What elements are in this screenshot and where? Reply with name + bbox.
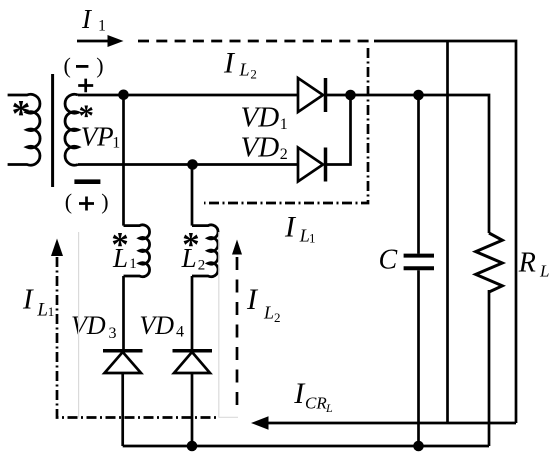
diode VD1 triangle: [298, 78, 323, 112]
svg-text:CR: CR: [305, 394, 327, 413]
svg-text:L: L: [181, 243, 197, 273]
inductor L2 coil: [192, 225, 218, 277]
svg-text:(: (: [64, 53, 71, 78]
wire: bottom return line with ICRL arrow: [266, 422, 516, 425]
wire: L1 to VD3: [122, 276, 125, 349]
diode VD3 triangle: [105, 352, 142, 373]
svg-text:L: L: [539, 262, 549, 281]
svg-text:L: L: [112, 243, 128, 273]
svg-text:VP: VP: [81, 121, 114, 151]
wire: C bottom lead: [417, 270, 420, 446]
capacitor C top plate: [404, 254, 434, 258]
current path IL2 dashed vertical with up arrow: [236, 257, 239, 410]
diode VD2 triangle: [298, 148, 323, 182]
svg-text:I: I: [81, 4, 93, 34]
current I1 arrow line: [77, 40, 109, 43]
wire: L2 to VD4: [191, 276, 194, 349]
wire: secondary top rail to VD1 anode: [78, 94, 298, 97]
svg-text:1: 1: [48, 304, 55, 319]
highlight box (light gray) around L/VD section: [78, 232, 80, 418]
svg-text:2: 2: [250, 67, 257, 82]
node: junction dot VD4 / bottom rail: [187, 441, 198, 452]
wire: VD2 cathode riser up to top node: [327, 95, 351, 165]
diode VD4 cathode bar: [173, 349, 213, 353]
transformer T1 primary winding: [8, 94, 40, 165]
diode VD2 cathode bar: [324, 148, 328, 182]
current path IL1 dash-dot left side with up arrow: [57, 257, 218, 418]
wire: L1 branch from top node down: [122, 95, 125, 226]
svg-text:I: I: [246, 283, 259, 316]
wire: VD1 cathode to output node: [327, 95, 489, 233]
transformer T1 secondary winding: [65, 94, 78, 165]
transformer T1 core: [51, 74, 54, 187]
svg-text:2: 2: [280, 146, 288, 163]
svg-text:VD: VD: [139, 311, 174, 340]
arrowhead IL2 (points up): [232, 240, 242, 255]
node: junction dot VD1/VD2 cathodes: [345, 90, 356, 101]
polarity bar (minus) bottom of secondary: [74, 179, 100, 184]
diode VD1 cathode bar: [324, 78, 328, 112]
label + top: [78, 79, 93, 93]
svg-text:L: L: [239, 60, 250, 80]
arrowhead IL1 (points up): [51, 239, 63, 257]
svg-text:1: 1: [280, 116, 288, 133]
diode VD3 cathode bar: [103, 349, 143, 353]
svg-text:I: I: [22, 284, 34, 316]
svg-text:4: 4: [176, 323, 184, 340]
wire: top-right rail solid: [374, 41, 516, 423]
svg-text:2: 2: [198, 257, 206, 273]
diode VD4 triangle: [174, 352, 210, 373]
wire: vertical link top rail to bottom return: [446, 41, 449, 423]
wire: L2 branch from bottom-rail node down: [191, 165, 194, 226]
svg-text:2: 2: [274, 310, 281, 325]
svg-text:VD: VD: [241, 101, 280, 133]
arrowhead ICRL (points left): [251, 416, 269, 429]
node: junction dot output / C branch: [413, 90, 424, 101]
svg-text:3: 3: [109, 325, 117, 342]
svg-text:1: 1: [129, 256, 137, 272]
svg-text:1: 1: [112, 135, 120, 152]
resistor RL zigzag: [476, 233, 503, 292]
svg-text:1: 1: [98, 18, 106, 35]
wire: secondary bottom rail to VD2 anode: [78, 163, 299, 166]
current path IL1 dash-dot right loop: [204, 48, 368, 203]
svg-text:L: L: [325, 401, 333, 415]
svg-text:I: I: [284, 210, 297, 243]
svg-text:): ): [96, 53, 103, 78]
svg-text:R: R: [518, 248, 536, 279]
wire: VD4 anode to bottom rail: [191, 373, 194, 446]
svg-text:L: L: [263, 302, 274, 322]
wire: RL bottom lead: [488, 290, 491, 446]
svg-text:L: L: [36, 300, 48, 321]
wire: bottom rail: [123, 445, 489, 448]
svg-text:VD: VD: [71, 311, 106, 340]
svg-text:I: I: [223, 46, 236, 79]
wire: VD3 anode to bottom rail: [121, 373, 124, 446]
arrowhead I1 (points right): [108, 35, 124, 47]
svg-text:VD: VD: [241, 131, 280, 163]
node: junction dot bottom rail / L2 branch: [187, 159, 198, 170]
svg-text:1: 1: [309, 230, 316, 245]
svg-text:(: (: [65, 189, 72, 214]
capacitor C bottom plate: [404, 266, 434, 270]
svg-text:): ): [101, 189, 108, 214]
current path I1 dashed top line: [138, 40, 371, 43]
svg-text:C: C: [379, 244, 398, 275]
node: junction dot C / bottom rail: [413, 441, 424, 452]
node: junction dot top rail / L1 branch: [118, 90, 129, 101]
svg-text:*: *: [12, 93, 31, 135]
inductor L1 coil: [124, 225, 150, 277]
wire: C top lead: [417, 95, 420, 254]
